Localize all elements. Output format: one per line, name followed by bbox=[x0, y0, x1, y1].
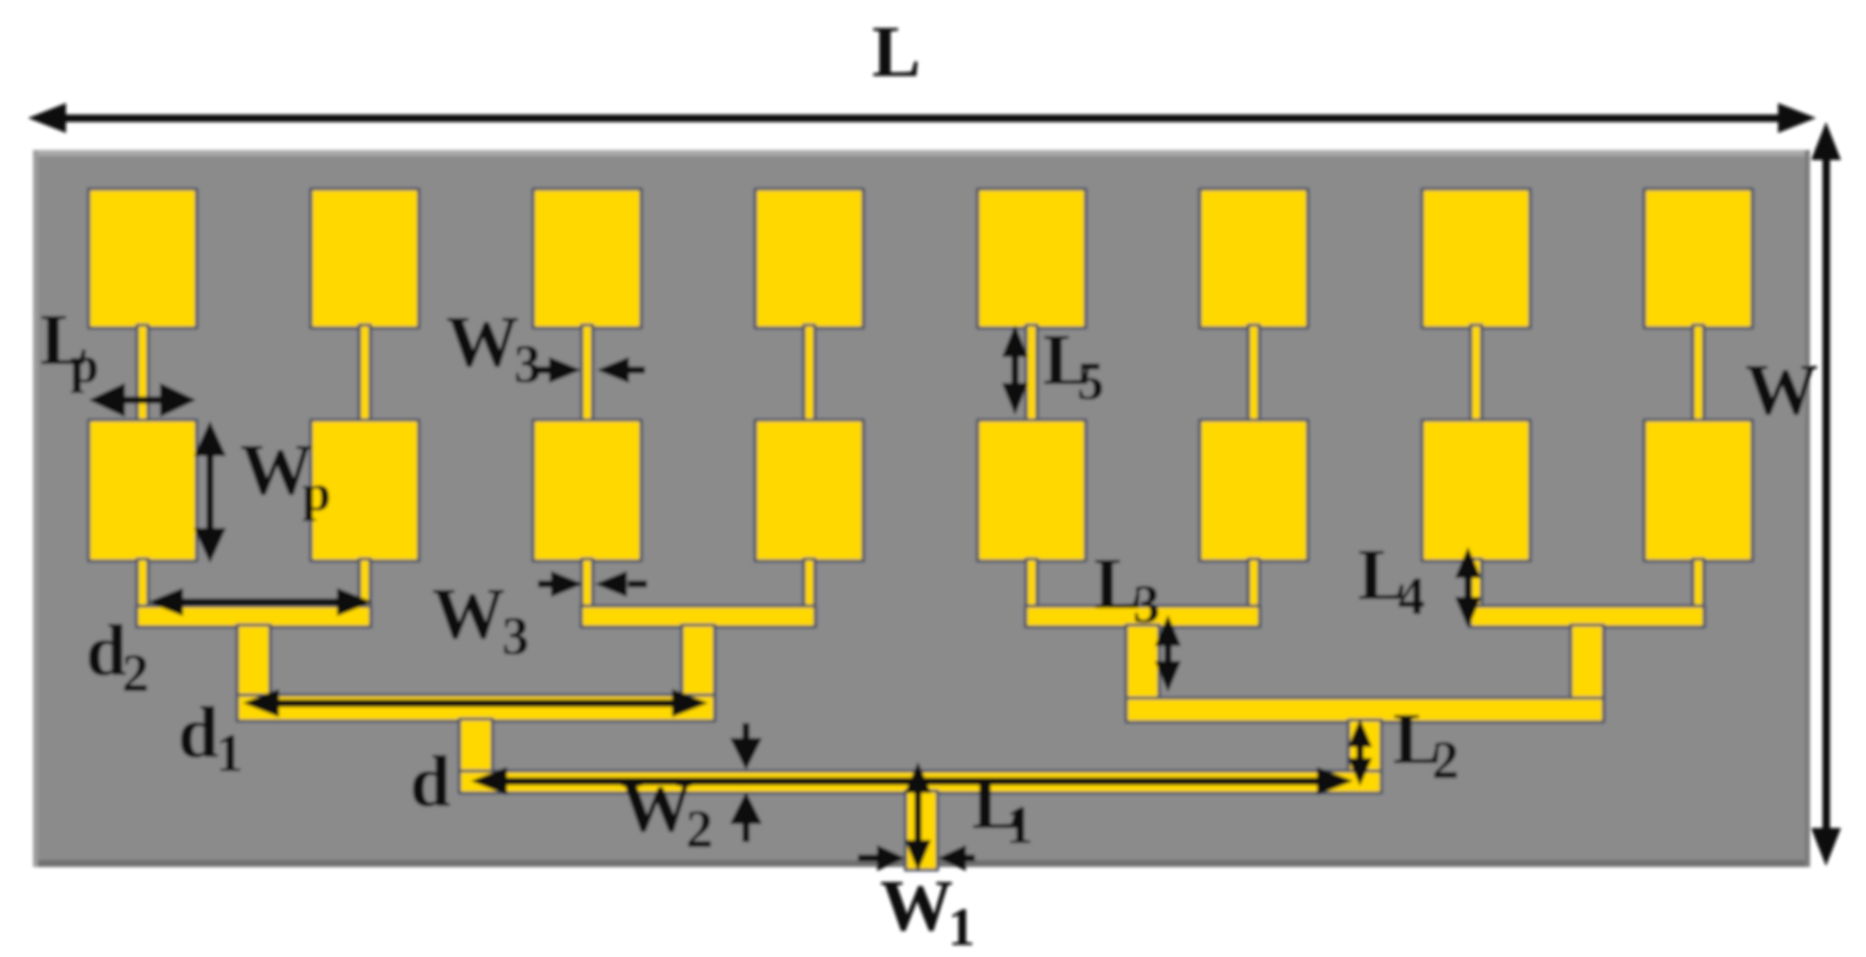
svg-text:5: 5 bbox=[1077, 351, 1104, 411]
arrow Lp bbox=[118, 397, 167, 404]
patch A2 top bbox=[311, 189, 419, 328]
patch A7 bottom bbox=[1422, 420, 1530, 561]
arrow W1 left bbox=[858, 855, 880, 862]
patch A4 top bbox=[755, 189, 863, 328]
arrow L4 bbox=[1465, 576, 1472, 598]
svg-text:W: W bbox=[446, 301, 519, 382]
stub A8 bbox=[1693, 559, 1704, 608]
svg-text:L: L bbox=[872, 11, 921, 92]
patch A7 top bbox=[1422, 189, 1530, 328]
svg-text:1: 1 bbox=[948, 897, 975, 957]
substrate left light edge bbox=[33, 150, 38, 867]
svg-text:2: 2 bbox=[122, 643, 149, 703]
feed line A5 bbox=[1026, 325, 1037, 423]
substrate bbox=[33, 150, 1810, 867]
patch A3 top bbox=[533, 189, 641, 328]
svg-text:W: W bbox=[1745, 349, 1818, 430]
svg-text:d: d bbox=[86, 610, 127, 691]
arrow W (right height) bbox=[1823, 155, 1831, 833]
patch A6 top bbox=[1200, 189, 1308, 328]
substrate bottom dark edge bbox=[33, 860, 1810, 867]
stub A3 bbox=[582, 559, 593, 608]
svg-text:3: 3 bbox=[1133, 574, 1160, 634]
arrow L1 bbox=[915, 790, 922, 842]
stub A5 bbox=[1026, 559, 1037, 608]
svg-text:1: 1 bbox=[216, 723, 243, 783]
arrow W3 top right bbox=[628, 367, 645, 374]
stub A2 bbox=[359, 559, 370, 608]
dimension arrows bbox=[28, 103, 1841, 871]
arrow W3 lower right bbox=[628, 581, 647, 588]
patch A3 bottom bbox=[533, 420, 641, 561]
svg-text:1: 1 bbox=[1006, 795, 1033, 855]
riser L2 right to trunk bbox=[1348, 720, 1381, 773]
substrate top light edge bbox=[33, 150, 1810, 156]
copper layer: outline pass bbox=[89, 189, 1753, 870]
patch A8 bottom bbox=[1644, 420, 1752, 561]
riser pair 3-4 bbox=[682, 625, 715, 698]
patch A2 bottom bbox=[311, 420, 419, 561]
patch A4 bottom bbox=[755, 420, 863, 561]
svg-text:W: W bbox=[620, 766, 693, 847]
riser pair 1-2 bbox=[237, 625, 270, 698]
patch A1 top bbox=[89, 189, 197, 328]
svg-text:2: 2 bbox=[1432, 730, 1459, 790]
arrow d1 bbox=[274, 700, 678, 708]
d2 bar pair 5-6 bbox=[1026, 606, 1260, 627]
arrow d bbox=[502, 778, 1320, 786]
svg-text:W: W bbox=[432, 573, 505, 654]
arrow Wp bbox=[207, 452, 214, 532]
svg-text:d: d bbox=[410, 741, 451, 822]
patch A6 bottom bbox=[1200, 420, 1308, 561]
feed line A2 bbox=[359, 325, 370, 423]
arrow W3 lower left bbox=[538, 581, 554, 588]
feed line A7 bbox=[1471, 325, 1482, 423]
arrow L2 bbox=[1357, 744, 1364, 760]
stub A1 bbox=[137, 559, 148, 608]
svg-text:W: W bbox=[880, 865, 953, 946]
arrow L (top width) bbox=[60, 115, 1782, 123]
patch A8 top bbox=[1644, 189, 1752, 328]
patch A5 top bbox=[978, 189, 1086, 328]
feed line A3 bbox=[582, 325, 593, 423]
svg-text:p: p bbox=[302, 465, 331, 522]
stub A7 bbox=[1471, 559, 1482, 608]
d1 bar left bbox=[237, 695, 715, 721]
stub A4 bbox=[804, 559, 815, 608]
riser pair 5-6 (L3) bbox=[1126, 625, 1159, 701]
d2 bar pair 1-2 bbox=[137, 606, 371, 627]
arrow W2 lower bbox=[743, 818, 750, 842]
svg-text:3: 3 bbox=[514, 334, 541, 394]
trunk line d bbox=[459, 771, 1381, 793]
svg-text:4: 4 bbox=[1398, 566, 1425, 626]
arrow d2 bbox=[178, 599, 342, 606]
d2 bar pair 7-8 bbox=[1470, 606, 1704, 627]
feed line A4 bbox=[804, 325, 815, 423]
riser d1 left to trunk bbox=[459, 719, 492, 773]
feed stub W1 bbox=[906, 791, 938, 870]
d1 bar right bbox=[1126, 698, 1604, 722]
patch A5 bottom bbox=[978, 420, 1086, 561]
arrow W2 upper bbox=[743, 723, 750, 743]
svg-text:d: d bbox=[178, 692, 219, 773]
svg-text:p: p bbox=[70, 337, 99, 394]
arrow W1 right bbox=[964, 855, 975, 862]
feed line A6 bbox=[1248, 325, 1259, 423]
substrate right dark edge bbox=[1805, 150, 1810, 867]
arrow L5 bbox=[1012, 352, 1019, 388]
feed line A1 (W3) bbox=[137, 325, 148, 423]
riser pair 7-8 bbox=[1571, 625, 1604, 701]
arrow L3 bbox=[1165, 644, 1172, 664]
svg-text:2: 2 bbox=[686, 799, 713, 859]
feed line A8 bbox=[1693, 325, 1704, 423]
stub A6 bbox=[1248, 559, 1259, 608]
copper layer: fill pass (covers internal strokes) bbox=[89, 189, 1753, 870]
svg-text:3: 3 bbox=[502, 606, 529, 666]
d2 bar pair 3-4 bbox=[581, 606, 815, 627]
arrow W3 top left bbox=[535, 367, 553, 374]
patch A1 bottom bbox=[89, 420, 197, 561]
